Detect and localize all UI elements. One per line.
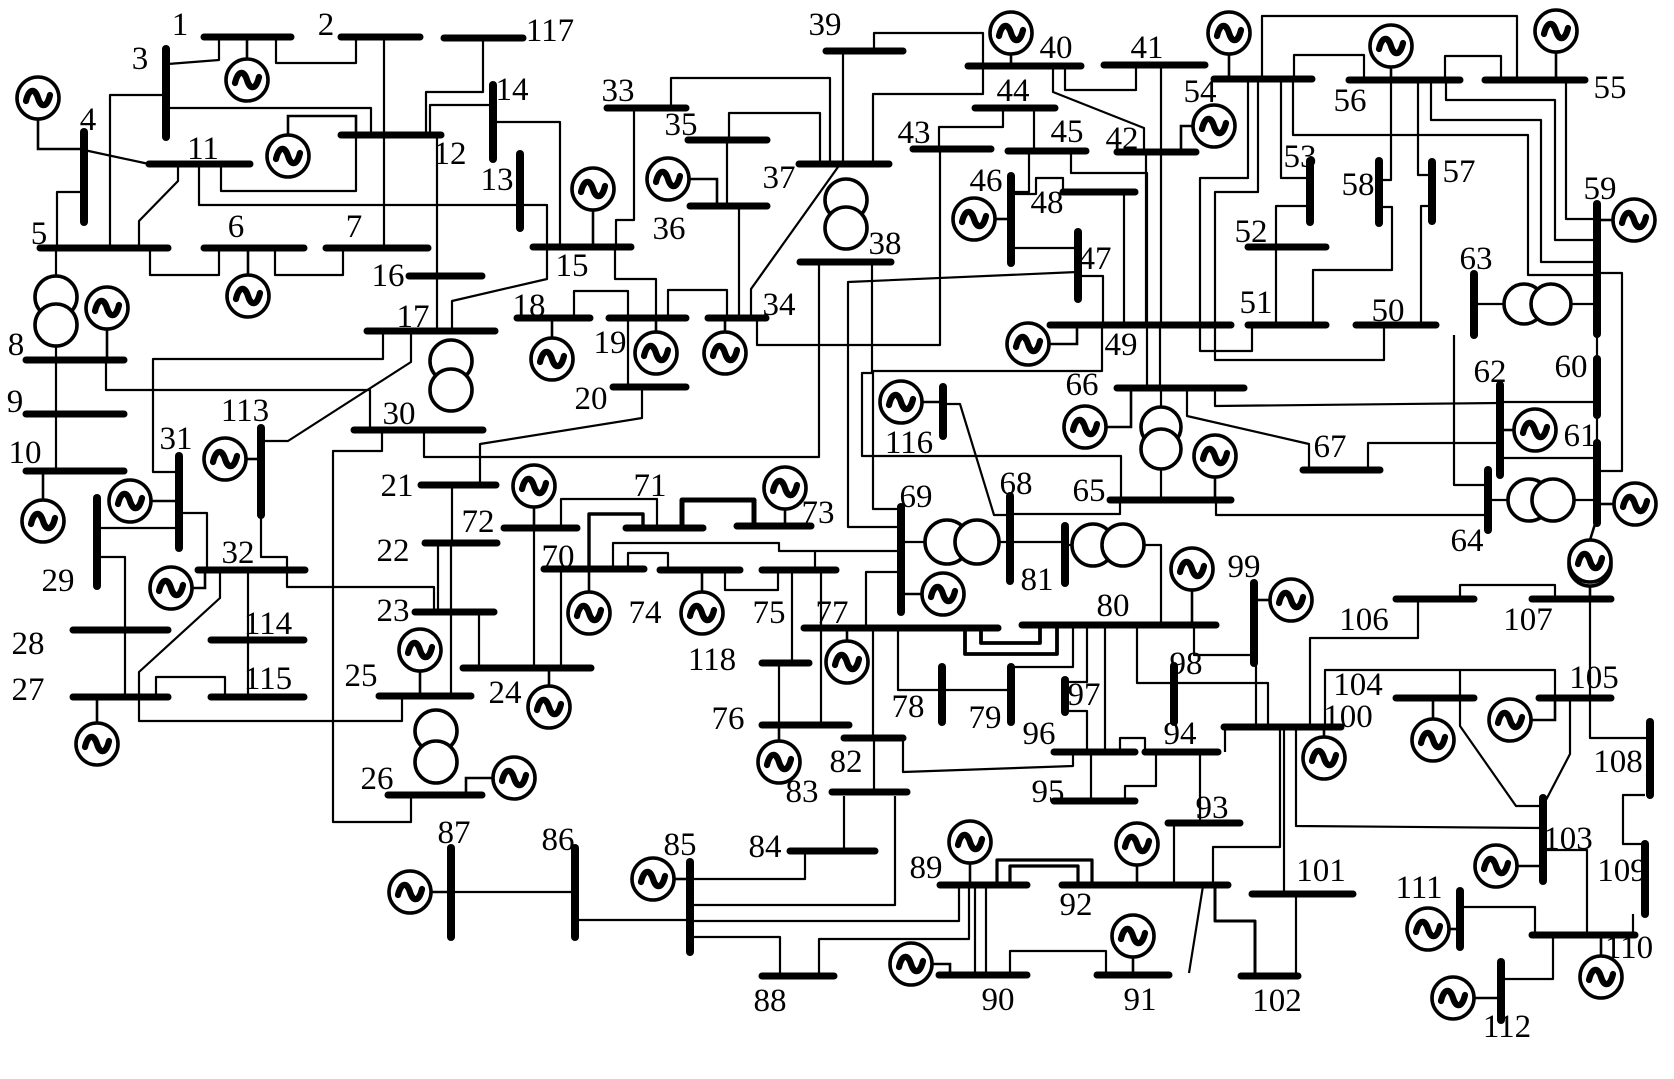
bus 85 (686, 862, 694, 952)
wire 103-105 (1546, 698, 1570, 800)
bus 34 (708, 315, 766, 322)
bus 21 (421, 482, 496, 489)
wire 71-73 (682, 500, 754, 528)
bus 25 (379, 693, 471, 700)
bus 106 (1396, 596, 1474, 603)
wire 1-3 (168, 37, 219, 64)
wire 83-85 (690, 796, 895, 905)
wire 11-12 (221, 135, 356, 191)
svg-text:55: 55 (1594, 70, 1627, 106)
generator G112 (1432, 977, 1501, 1019)
generator G40 (990, 12, 1032, 66)
bus 40 (968, 63, 1081, 70)
wire 54-55 (1262, 16, 1517, 80)
wire 92-100 (1213, 727, 1280, 885)
wire 91-92 (1189, 886, 1203, 973)
bus 94 (1145, 749, 1218, 756)
bus 9 (26, 411, 124, 418)
svg-text:82: 82 (830, 744, 863, 780)
bus 72 (504, 525, 577, 532)
svg-text:110: 110 (1605, 930, 1653, 966)
svg-text:16: 16 (372, 258, 405, 294)
bus 48 (1063, 189, 1135, 196)
wire 8-30 (106, 363, 370, 428)
svg-text:94: 94 (1164, 716, 1197, 752)
svg-text:51: 51 (1240, 285, 1273, 321)
bus 92 (1062, 882, 1228, 889)
bus 107 (1532, 596, 1611, 603)
svg-text:57: 57 (1443, 154, 1476, 190)
bus 17 (367, 328, 495, 335)
bus 76 (762, 722, 849, 729)
svg-text:23: 23 (377, 593, 410, 629)
wire 3-12 (166, 108, 371, 135)
generator G116 (880, 381, 943, 423)
bus 108 (1646, 722, 1654, 795)
transformer T26-25 (415, 710, 457, 783)
bus 82 (844, 735, 903, 742)
svg-text:111: 111 (1395, 870, 1442, 906)
svg-text:95: 95 (1032, 774, 1065, 810)
svg-text:14: 14 (496, 72, 529, 108)
svg-text:79: 79 (969, 700, 1002, 736)
svg-text:60: 60 (1555, 349, 1588, 385)
bus 68 (1006, 496, 1014, 581)
wire 39-40 (874, 33, 983, 66)
wire 25-27 (139, 697, 402, 721)
generator G104 (1412, 698, 1454, 761)
wire 94-95 (1125, 752, 1156, 801)
wire 101-102 (1295, 894, 1297, 976)
wire 66-67 (1187, 388, 1309, 470)
wire 24-72 (533, 528, 535, 668)
generator G18 (531, 318, 573, 380)
bus 22 (425, 540, 497, 547)
bus 20 (613, 384, 686, 391)
svg-text:19: 19 (594, 325, 627, 361)
generator G66 (1064, 388, 1131, 448)
bus 63 (1470, 274, 1478, 335)
svg-text:81: 81 (1021, 562, 1054, 598)
bus 28 (73, 627, 168, 634)
svg-text:58: 58 (1342, 167, 1375, 203)
svg-text:12: 12 (434, 136, 467, 172)
bus 43 (913, 146, 991, 153)
wire 96-97 (1064, 711, 1087, 752)
wire 8-9 (55, 362, 57, 414)
wire 60-62 (1500, 401, 1597, 403)
wire 35-36 (726, 140, 728, 206)
svg-text:54: 54 (1184, 74, 1217, 110)
generator G12 (267, 116, 356, 177)
bus 100 (1224, 724, 1341, 731)
wire 54-59 (1293, 79, 1597, 275)
svg-text:3: 3 (132, 41, 149, 77)
wire 68-116 (943, 404, 1008, 515)
wire 82-96 (903, 740, 1073, 772)
wire 75-77 (820, 570, 822, 725)
bus 117 (444, 35, 523, 42)
svg-text:74: 74 (629, 595, 662, 631)
svg-text:31: 31 (160, 421, 193, 457)
svg-text:108: 108 (1593, 744, 1643, 780)
bus 61 (1593, 443, 1601, 523)
wire 92-93 (1173, 823, 1175, 886)
bus 38 (800, 259, 891, 266)
svg-text:65: 65 (1073, 473, 1106, 509)
generator G111 (1407, 908, 1460, 950)
bus 89 (940, 882, 1027, 889)
bus 79 (1007, 667, 1015, 722)
bus 35 (688, 137, 767, 144)
wire 1-2 (276, 37, 356, 63)
bus 67 (1303, 467, 1380, 474)
generator G90 (890, 943, 950, 985)
generator G25 (399, 629, 441, 696)
wire 63-59 (1474, 303, 1597, 305)
generator G72 (513, 465, 555, 528)
svg-text:59: 59 (1584, 171, 1617, 207)
bus 110 (1532, 932, 1635, 939)
bus 75 (762, 567, 836, 574)
svg-text:8: 8 (8, 327, 25, 363)
wire 74-75 (725, 570, 778, 590)
wire 79-80 (1011, 625, 1073, 667)
bus 2 (341, 34, 420, 41)
wire 4-5 (57, 192, 84, 248)
svg-text:7: 7 (346, 209, 363, 245)
generator G107 (1569, 544, 1611, 599)
svg-text:4: 4 (80, 102, 97, 138)
svg-text:113: 113 (221, 393, 269, 429)
generator G8 (86, 287, 128, 360)
svg-text:35: 35 (665, 107, 698, 143)
wire 80-99 (1194, 627, 1256, 655)
svg-text:76: 76 (712, 701, 745, 737)
svg-text:106: 106 (1339, 602, 1389, 638)
bus 26 (388, 792, 482, 799)
svg-text:38: 38 (869, 226, 902, 262)
wire 77-80a (981, 627, 1040, 643)
wire 78-79 (942, 689, 1011, 691)
svg-text:107: 107 (1503, 602, 1553, 638)
wire 34-36 (738, 206, 740, 318)
wire 65-68 (1010, 500, 1120, 514)
generator G80 (1171, 548, 1213, 625)
wire 46-48 (1011, 178, 1063, 194)
bus 31 (175, 456, 183, 548)
svg-text:69: 69 (900, 479, 933, 515)
wire 37-39 (842, 51, 844, 164)
wire 59-61 (1597, 273, 1622, 471)
wire 14-15 (493, 122, 560, 247)
svg-text:91: 91 (1124, 982, 1157, 1018)
svg-text:25: 25 (345, 658, 378, 694)
generator G76 (758, 725, 800, 783)
wire 18-19 (574, 291, 628, 318)
wire 56-58 (1379, 80, 1391, 180)
svg-text:29: 29 (42, 563, 75, 599)
bus 112 (1497, 962, 1505, 1020)
wire 56-59b (1431, 80, 1597, 262)
generator G54 (1208, 12, 1250, 79)
wire 43-44 (939, 108, 1003, 149)
wire 77-82 (872, 630, 874, 738)
bus 105 (1539, 695, 1611, 702)
wire 19-20 (627, 318, 629, 387)
wire 106-107 (1460, 585, 1555, 599)
svg-text:34: 34 (763, 287, 796, 323)
bus 8 (26, 357, 124, 364)
generator G19 (635, 318, 677, 374)
bus 50 (1356, 322, 1436, 329)
bus 118 (762, 660, 809, 667)
svg-text:53: 53 (1284, 139, 1317, 175)
bus 37 (799, 161, 889, 168)
transformer T68-69 (925, 520, 999, 564)
svg-text:62: 62 (1474, 354, 1507, 390)
bus 98 (1170, 666, 1178, 722)
wire 70-74 (628, 553, 668, 570)
generator G36 (647, 158, 717, 206)
bus 114 (211, 637, 304, 644)
svg-text:104: 104 (1333, 667, 1383, 703)
wire 99-100 (1255, 663, 1257, 727)
wire 108-109 (1623, 795, 1645, 844)
bus 55 (1485, 77, 1585, 84)
wire 75-118 (791, 570, 793, 661)
wire 32-113 (261, 515, 287, 570)
wire 4-11 (84, 150, 149, 164)
svg-text:70: 70 (542, 539, 575, 575)
wire 47-69 (848, 272, 1077, 527)
svg-text:30: 30 (383, 396, 416, 432)
wire 68-81 (1010, 541, 1065, 543)
wire 64-61 (1488, 499, 1597, 501)
bus 36 (690, 203, 767, 210)
generator G32 (150, 567, 205, 609)
wire 85-89 (690, 885, 959, 921)
wire 42-49a (1145, 152, 1147, 325)
wire 17-31 (153, 332, 383, 472)
generator G105 (1489, 698, 1555, 741)
bus 56 (1349, 77, 1460, 84)
wire 88-89 (819, 885, 969, 976)
svg-text:63: 63 (1460, 241, 1493, 277)
svg-text:109: 109 (1597, 853, 1647, 889)
svg-text:50: 50 (1372, 293, 1405, 329)
bus 15 (533, 244, 631, 251)
wire 64-65 (1216, 500, 1488, 515)
svg-text:86: 86 (542, 822, 575, 858)
bus 3 (162, 49, 170, 137)
generator G26 (466, 757, 535, 799)
svg-text:61: 61 (1564, 418, 1597, 454)
svg-text:77: 77 (816, 595, 849, 631)
wire 31-32 (179, 513, 207, 570)
bus 66 (1117, 385, 1244, 392)
svg-text:2: 2 (318, 7, 335, 43)
wire 34-43 (757, 149, 940, 345)
wire 80-96 (1104, 627, 1106, 752)
wire 12-14 (430, 105, 493, 135)
svg-text:49: 49 (1105, 327, 1138, 363)
wire 69-77 (866, 572, 901, 628)
wire 15-33 (616, 108, 634, 247)
generator G74 (681, 570, 723, 634)
svg-text:99: 99 (1228, 549, 1261, 585)
wire 55-56 (1445, 56, 1501, 80)
bus 46 (1007, 176, 1015, 263)
generator G27 (76, 697, 118, 765)
svg-text:118: 118 (688, 642, 736, 678)
generator G103 (1475, 845, 1543, 887)
svg-text:85: 85 (664, 827, 697, 863)
svg-text:98: 98 (1170, 646, 1203, 682)
wire 29-31 (97, 527, 179, 529)
wire 40-41 (1065, 65, 1136, 90)
wire 63-64 (1454, 335, 1488, 485)
transformer T8-5 (35, 276, 77, 346)
svg-text:24: 24 (489, 675, 522, 711)
wire 27-32 (139, 570, 220, 697)
bus 23 (415, 609, 494, 616)
transformer T63-59 (1504, 284, 1571, 324)
generator G65 (1194, 435, 1236, 500)
wire 82-83 (873, 738, 875, 792)
transformer T30-17 (430, 340, 472, 411)
svg-text:26: 26 (361, 761, 394, 797)
bus 90 (939, 972, 1027, 979)
bus 62 (1496, 385, 1504, 475)
bus 109 (1641, 844, 1649, 914)
bus 96 (1054, 749, 1135, 756)
wire 85-86 (575, 919, 690, 921)
wire 17-113 (261, 332, 411, 441)
wire 89-90b (985, 885, 987, 975)
bus 93 (1168, 820, 1240, 827)
bus 1 (204, 34, 291, 41)
wire 94-100 (1224, 727, 1226, 752)
svg-text:41: 41 (1131, 30, 1164, 66)
svg-text:48: 48 (1031, 185, 1064, 221)
wire 103-104 (1460, 698, 1543, 806)
wire 89-90a (974, 885, 976, 975)
bus 39 (826, 48, 903, 55)
wire 100-104 (1325, 670, 1460, 727)
bus 81 (1061, 526, 1069, 583)
bus 54 (1214, 76, 1312, 83)
bus 5 (40, 245, 168, 252)
svg-text:89: 89 (910, 850, 943, 886)
wire 94-96 (1120, 738, 1145, 752)
generator G89 (949, 821, 991, 885)
svg-text:21: 21 (381, 468, 414, 504)
bus 103 (1539, 798, 1547, 881)
transformer T81-80 (1072, 524, 1144, 566)
svg-text:5: 5 (31, 216, 48, 252)
bus 16 (409, 273, 482, 280)
bus 18 (517, 315, 590, 322)
bus 45 (1008, 148, 1086, 155)
svg-text:102: 102 (1252, 983, 1302, 1019)
generator G62 (1500, 409, 1556, 451)
wire 5-11 (139, 164, 178, 248)
wire 51-52-53 (1276, 206, 1309, 325)
wire 35-37 (729, 113, 820, 164)
transformer T65-66 (1141, 407, 1181, 469)
wire 28-29-27 (98, 557, 125, 697)
generator G73 (764, 467, 806, 526)
wire 6-7 (275, 248, 343, 275)
wire 5-6 (150, 248, 219, 275)
generator G31 (109, 480, 179, 522)
bus 7 (326, 245, 428, 252)
wire 15-19 (615, 248, 656, 318)
wire 69-70 (613, 543, 901, 569)
wire 98-100 (1174, 683, 1268, 727)
svg-text:114: 114 (244, 606, 292, 642)
svg-text:27: 27 (12, 672, 45, 708)
svg-text:45: 45 (1051, 114, 1084, 150)
bus 84 (790, 848, 875, 855)
wire 56-59a (1446, 80, 1597, 240)
wire 100-101 (1283, 727, 1285, 894)
svg-text:71: 71 (634, 468, 667, 504)
generator G70 (568, 569, 610, 634)
wire 95-96 (1090, 752, 1092, 801)
svg-text:116: 116 (885, 425, 933, 461)
wire 22-23 (437, 543, 439, 612)
wire 59-60 (1596, 334, 1598, 359)
generator G61 (1600, 483, 1656, 525)
svg-text:83: 83 (786, 774, 819, 810)
bus 65 (1110, 497, 1231, 504)
bus 44 (975, 105, 1055, 112)
bus 24 (463, 665, 591, 672)
wire 49-69 (873, 325, 1102, 509)
svg-text:112: 112 (1483, 1009, 1531, 1045)
wire 69-75 (814, 551, 816, 570)
wire 110-111 (1460, 907, 1535, 935)
wire 41-42 (1160, 65, 1162, 152)
svg-text:67: 67 (1314, 429, 1347, 465)
svg-text:90: 90 (982, 982, 1015, 1018)
wire 9-10 (55, 414, 57, 471)
bus 71 (626, 525, 703, 532)
wire 71-72 (561, 499, 657, 528)
bus 91 (1097, 972, 1169, 979)
wire 12-117 (426, 38, 483, 135)
svg-text:15: 15 (556, 248, 589, 284)
svg-text:56: 56 (1334, 83, 1367, 119)
generator G6 (227, 248, 269, 317)
bus 102 (1241, 973, 1298, 980)
bus 27 (73, 694, 168, 701)
generator G59 (1601, 199, 1655, 241)
bus 74 (660, 567, 740, 574)
wire 103-110 (1543, 850, 1587, 935)
wire 5-8 (55, 248, 57, 358)
wire 20-21 (480, 387, 642, 485)
svg-text:96: 96 (1023, 716, 1056, 752)
generator G92 (1116, 823, 1158, 885)
wire 23-32 (287, 570, 434, 612)
wire 11-13-15 (199, 164, 547, 247)
bus 32 (198, 567, 305, 574)
svg-text:72: 72 (462, 504, 495, 540)
wire 61-62 (1500, 457, 1597, 459)
